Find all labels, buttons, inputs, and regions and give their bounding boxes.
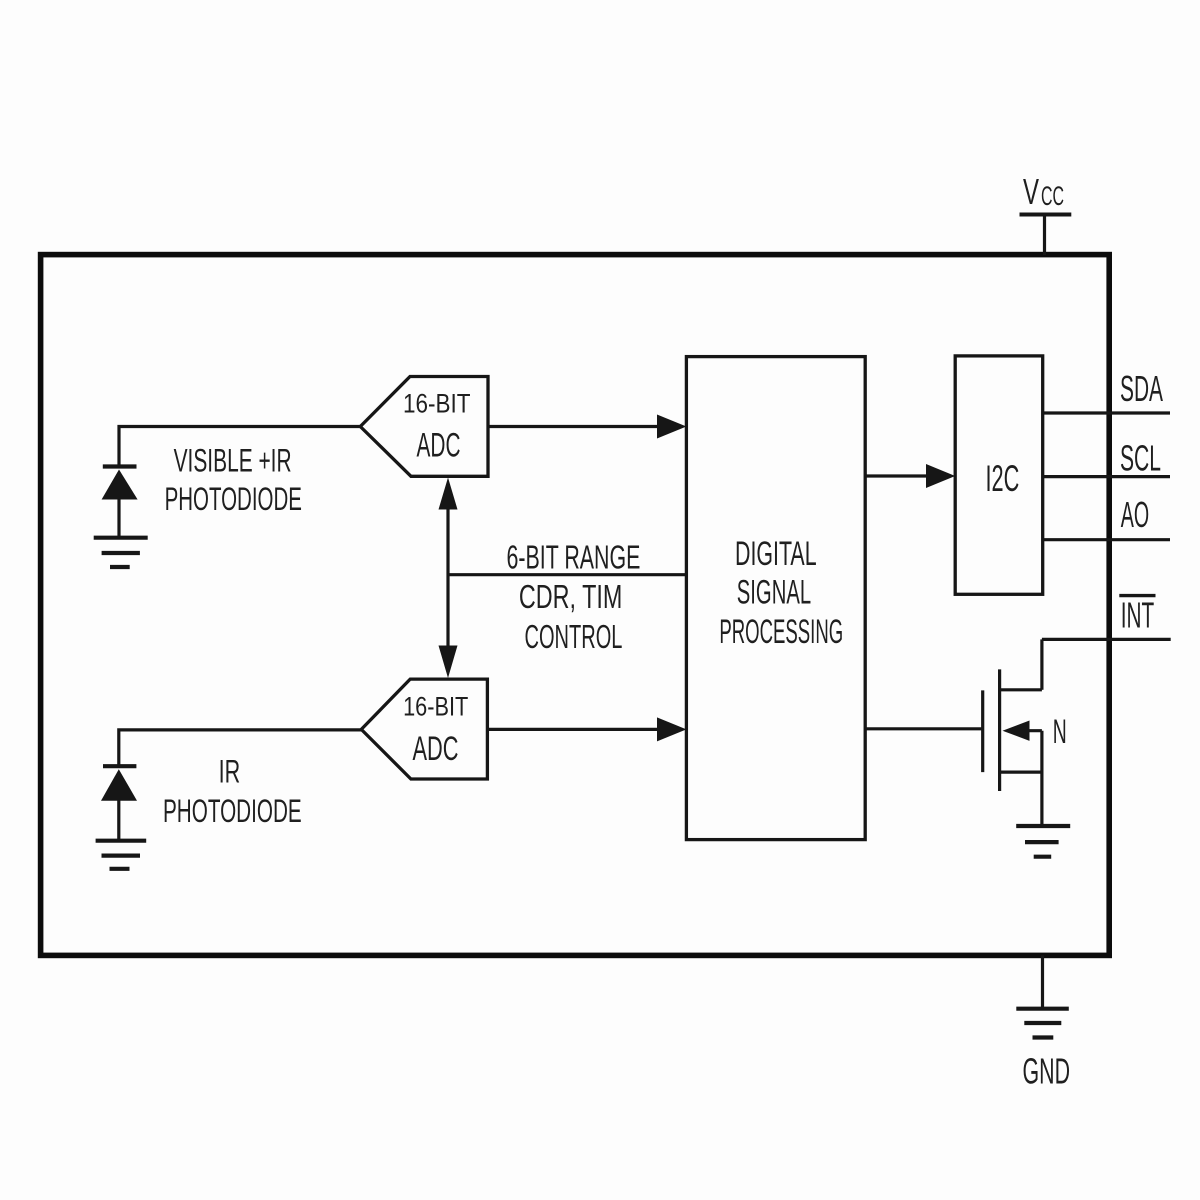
ADC1 16-BIT ADC block — [360, 377, 488, 477]
ground (Q1 source) — [1016, 826, 1070, 857]
wire AO — [1043, 538, 1170, 541]
svg-text:16-BIT: 16-BIT — [403, 692, 468, 722]
svg-text:ADC: ADC — [417, 426, 461, 464]
bidirectional control arrow between ADC1 and ADC2 — [439, 478, 458, 679]
wire photodiode D2 to ADC2 — [119, 730, 361, 767]
DSP block DIGITAL SIGNAL PROCESSING — [686, 357, 865, 840]
Q1 body arrowhead — [1003, 721, 1030, 741]
wire photodiode D1 to ADC1 — [119, 427, 360, 468]
svg-text:GND: GND — [1023, 1051, 1071, 1092]
ADC1 value label — [403, 389, 471, 465]
wire ADC2 to DSP with arrowhead — [487, 717, 686, 741]
ADC2 16-BIT ADC block — [361, 679, 487, 779]
label VISIBLE +IR PHOTODIODE — [165, 442, 302, 517]
svg-text:VISIBLE +IR: VISIBLE +IR — [174, 442, 292, 478]
svg-text:PHOTODIODE: PHOTODIODE — [165, 481, 302, 517]
label INT with overline — [1119, 595, 1155, 636]
svg-text:CONTROL: CONTROL — [525, 618, 623, 655]
photodiode D1 VISIBLE+IR — [102, 467, 138, 538]
wire gate DSP to Q1 — [865, 727, 983, 730]
svg-text:DIGITAL: DIGITAL — [735, 535, 817, 573]
transistor Q1 N-channel MOSFET — [983, 639, 1042, 826]
svg-text:CC: CC — [1041, 181, 1064, 211]
wire SCL — [1043, 475, 1170, 478]
svg-text:SDA: SDA — [1120, 368, 1163, 409]
svg-text:PROCESSING: PROCESSING — [719, 613, 843, 651]
ground (D1) — [94, 538, 148, 567]
chip boundary — [41, 255, 1110, 956]
Vcc supply symbol — [1020, 215, 1072, 256]
svg-text:CDR, TIM: CDR, TIM — [519, 578, 623, 615]
ground (D2) — [96, 841, 147, 869]
svg-text:SCL: SCL — [1120, 438, 1161, 479]
wire GND stem — [1041, 955, 1044, 1008]
wire 6-bit control bus to DSP — [448, 573, 686, 576]
label 6-BIT RANGE CDR, TIM CONTROL — [507, 539, 641, 656]
svg-text:IR: IR — [219, 753, 241, 789]
wire INT drain to pin — [1042, 638, 1171, 641]
label IR PHOTODIODE — [163, 753, 302, 829]
svg-text:SIGNAL: SIGNAL — [737, 573, 811, 611]
svg-text:6-BIT RANGE: 6-BIT RANGE — [507, 539, 641, 576]
svg-text:V: V — [1023, 171, 1039, 212]
svg-text:INT: INT — [1121, 595, 1155, 636]
ground GND — [1016, 1009, 1069, 1038]
wire SDA — [1043, 411, 1170, 414]
photodiode D2 IR — [101, 766, 137, 841]
wire ADC1 to DSP with arrowhead — [488, 415, 686, 439]
wire DSP to I2C with arrowhead — [865, 464, 955, 488]
svg-text:N: N — [1053, 713, 1067, 751]
ADC2 value label — [403, 692, 468, 769]
svg-text:16-BIT: 16-BIT — [403, 389, 471, 419]
DSP label — [719, 535, 843, 651]
svg-text:ADC: ADC — [413, 730, 459, 768]
svg-text:I2C: I2C — [986, 458, 1020, 499]
svg-text:AO: AO — [1121, 494, 1149, 535]
I2C block U1 — [955, 356, 1042, 594]
Vcc label — [1023, 171, 1064, 212]
svg-text:PHOTODIODE: PHOTODIODE — [163, 793, 302, 829]
